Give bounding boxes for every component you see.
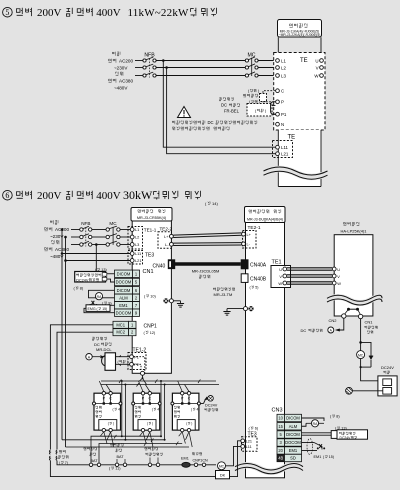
svg-text:L+: L+: [164, 234, 169, 239]
svg-text:L3: L3: [135, 242, 139, 247]
ground converter PE: [163, 298, 184, 307]
connector CN3: [272, 408, 283, 414]
wire CN1 thermal down: [360, 319, 362, 343]
svg-text:10): 10): [150, 294, 156, 298]
resistor regenerative option group 3: [171, 392, 201, 432]
terminal block TE control (L11 L21): [273, 135, 296, 158]
svg-text:DK: DK: [220, 474, 226, 478]
svg-text:EM1: EM1: [119, 303, 128, 308]
svg-text:ALM: ALM: [119, 295, 128, 300]
svg-text:): ): [113, 422, 114, 426]
node U output: [315, 58, 323, 63]
wire wavy break motor: [327, 295, 382, 305]
svg-text:U: U: [337, 267, 340, 272]
svg-text:30kW: 30kW: [123, 188, 153, 202]
terminal block TE2-1: [243, 225, 261, 248]
svg-text:BAT: BAT: [91, 459, 99, 463]
svg-text:CN1: CN1: [143, 269, 154, 275]
wire regen chain risers 2: [160, 380, 166, 440]
node bus drive unit BAT: [84, 447, 101, 466]
node motor U: [332, 267, 340, 272]
svg-text:10: 10: [278, 416, 283, 421]
wire V drive to motor: [287, 275, 332, 277]
wire bus L+ converter to drive: [173, 233, 241, 238]
wire tap to interface supply: [95, 243, 98, 271]
svg-text:EM1: EM1: [314, 455, 322, 459]
svg-text:): ): [191, 422, 192, 426]
svg-text:11): 11): [115, 467, 121, 471]
wire source stubs: [135, 61, 143, 76]
relay RA drive alarm: [302, 418, 325, 427]
svg-text:CN40B: CN40B: [250, 277, 267, 283]
svg-text:): ): [127, 360, 128, 364]
svg-text:CN3: CN3: [272, 408, 283, 414]
svg-text:P2: P2: [134, 363, 139, 367]
node P: [276, 100, 284, 105]
svg-text:DICOM: DICOM: [286, 432, 300, 437]
svg-text:L11: L11: [281, 145, 289, 150]
svg-text:L2: L2: [135, 235, 139, 240]
svg-text:CN1: CN1: [365, 320, 374, 325]
wire regen bus to DC24V arrow: [200, 396, 217, 412]
svg-text:TE: TE: [300, 58, 308, 64]
connector CN3 pin table: [277, 414, 302, 461]
svg-text:MR-J3-CR55K(4): MR-J3-CR55K(4): [137, 216, 167, 220]
svg-text:MC: MC: [247, 53, 255, 59]
svg-text:P: P: [281, 100, 284, 105]
node power-source-1 label: [108, 52, 133, 91]
node relay terminal block label MR-J3-TM: [213, 288, 235, 298]
node L2: [276, 65, 287, 70]
converter unit body: [132, 221, 171, 373]
svg-text:NFB: NFB: [81, 221, 90, 226]
note (14): [205, 201, 218, 206]
svg-text:15): 15): [102, 307, 107, 311]
node drive L21: [241, 439, 252, 444]
resistor regenerative option group 2: [132, 392, 162, 432]
wire P2 to bottom node dashed: [133, 357, 144, 374]
wire taps to converter L11 L21: [61, 228, 131, 260]
node L1: [276, 58, 287, 63]
wire bus to drive TE3: [226, 446, 241, 465]
note (10): [144, 294, 157, 298]
node conv L3: [130, 242, 139, 247]
svg-text:4): 4): [118, 408, 121, 412]
wire converter output feeder buses: [99, 375, 219, 391]
svg-text:5: 5: [5, 8, 9, 17]
transistor MC coil fan circuit: [357, 341, 371, 359]
diode flyback: [369, 352, 373, 368]
relay RA converter alarm: [89, 290, 115, 300]
svg-text:DICOM: DICOM: [117, 288, 131, 293]
svg-text:MR-J3CDL05M: MR-J3CDL05M: [192, 269, 220, 274]
svg-text:DC24V: DC24V: [76, 278, 89, 282]
svg-text:L21: L21: [246, 440, 252, 444]
svg-text:TE1-1: TE1-1: [144, 227, 157, 232]
svg-text:P1: P1: [134, 355, 139, 359]
svg-text:AC380: AC380: [119, 79, 133, 84]
svg-text:DC24V: DC24V: [340, 436, 352, 440]
svg-text:L11: L11: [135, 251, 141, 256]
inductor DC reactor MR-DCL: [92, 337, 129, 370]
svg-text:): ): [152, 422, 153, 426]
svg-text:L21: L21: [135, 258, 142, 263]
svg-text:15): 15): [329, 455, 334, 459]
node conv L21: [130, 258, 141, 263]
svg-text:TE: TE: [288, 135, 296, 141]
title section 5: [3, 7, 217, 19]
wire MC2 loop: [57, 332, 113, 449]
wire transformer outputs to bottom buses: [50, 441, 240, 477]
svg-text:~480V: ~480V: [114, 85, 128, 90]
svg-text:15: 15: [278, 424, 283, 429]
svg-text:RA: RA: [97, 295, 102, 299]
svg-text:EM1: EM1: [289, 448, 298, 453]
svg-text:~230V: ~230V: [114, 65, 128, 70]
wire wavy break drive bottom: [235, 463, 303, 473]
connector CN40B: [241, 274, 267, 290]
terminal block TE (main): [300, 58, 308, 64]
node drive L11: [241, 445, 252, 450]
note (13) drive: [335, 426, 348, 430]
svg-text:TE3: TE3: [145, 253, 154, 259]
svg-text:CN40: CN40: [153, 263, 166, 269]
note (11): [109, 466, 121, 470]
svg-text:~MR-J3-22KA(4)(-RJ006)(5): ~MR-J3-22KA(4)(-RJ006)(5): [279, 33, 321, 37]
note (8) section6: [74, 286, 84, 290]
svg-text:5): 5): [255, 286, 258, 290]
wire MC to servo amp L1 L2 L3: [258, 61, 275, 76]
servo amplifier body lower outline: [278, 130, 321, 187]
svg-text:SD: SD: [290, 456, 296, 461]
wire NFB to MC three phases: [156, 61, 245, 76]
breaker NFB (section 6): [80, 221, 92, 247]
svg-text:DOCOM: DOCOM: [285, 440, 301, 445]
svg-text:L11: L11: [246, 445, 252, 449]
wire fan circuit join: [360, 359, 378, 381]
svg-text:CNP1CN: CNP1CN: [193, 458, 208, 462]
svg-text:DC24V: DC24V: [381, 365, 394, 370]
svg-text:MR-J3-DU[]KA(4)/B(4): MR-J3-DU[]KA(4)/B(4): [247, 217, 283, 221]
node N: [276, 122, 285, 127]
wire regen bottom buses: [62, 432, 192, 463]
converter unit name box: [131, 208, 172, 222]
contactor coil MC bottom: [218, 462, 226, 470]
svg-text:N: N: [281, 122, 284, 127]
motor servo motor name: [340, 222, 367, 233]
svg-text:7): 7): [65, 461, 68, 465]
node converter bottom output: [141, 371, 145, 375]
svg-text:MC: MC: [358, 353, 364, 357]
terminal block TE1 drive: [271, 260, 291, 288]
warning note triangle: [172, 107, 257, 131]
wire MC1 loop: [50, 325, 113, 450]
svg-text:MC: MC: [219, 465, 225, 469]
svg-text:ALM: ALM: [289, 424, 298, 429]
svg-text:DC: DC: [208, 120, 214, 125]
svg-text:V: V: [337, 274, 340, 279]
svg-text:U: U: [279, 267, 282, 272]
terminal block TE1-2: [128, 348, 146, 370]
node motor W: [332, 281, 341, 286]
contactor MC (section 5): [245, 53, 258, 78]
svg-text:MC1: MC1: [116, 322, 125, 327]
connector motor CN1 thermal: [358, 314, 377, 333]
svg-text:L1: L1: [135, 227, 139, 232]
connector CN1 pin table: [115, 270, 140, 316]
wire bus L- converter to drive: [173, 243, 241, 246]
connector CNP1 MC outputs: [113, 321, 157, 335]
svg-text:4): 4): [157, 408, 160, 412]
node drive L+: [242, 232, 252, 237]
node motor V: [332, 274, 340, 279]
breaker NFB (section 5): [143, 53, 156, 78]
svg-text:V: V: [316, 65, 319, 70]
node bus servo motor thermal: [145, 447, 163, 466]
svg-text:200V: 200V: [37, 190, 62, 202]
svg-text:CN40A: CN40A: [250, 263, 267, 269]
svg-text:RA: RA: [313, 422, 318, 426]
svg-text:MR-DCL: MR-DCL: [96, 347, 112, 352]
wire regen chain risers 1: [121, 380, 127, 440]
svg-text:L2: L2: [281, 65, 286, 70]
svg-text:DICOM: DICOM: [286, 416, 300, 421]
node L21: [276, 152, 289, 157]
drive unit name box: [245, 207, 286, 223]
svg-text:4B: 4B: [278, 456, 283, 461]
note (9): [102, 301, 112, 305]
inductor DC reactor FR-BEL (note 2): [219, 97, 275, 116]
node power-source-2 label: [44, 220, 69, 259]
svg-text:DOCOM: DOCOM: [116, 310, 132, 315]
svg-text:4): 4): [197, 408, 200, 412]
wire interface supply to CN1: [107, 274, 115, 282]
drive unit body: [246, 223, 285, 478]
wire bus cable MR-J3CDL05M: [175, 264, 241, 278]
title section 6: [3, 188, 201, 202]
connector CN40 converter: [153, 260, 175, 270]
wire NFB to MC (section 6): [92, 230, 106, 245]
wire CN2 to encoder marker A: [301, 318, 344, 333]
node W output: [314, 73, 323, 78]
terminal block TE1-1: [128, 227, 157, 250]
node L11: [276, 145, 289, 150]
node C: [276, 89, 285, 94]
svg-text:CNP1: CNP1: [144, 324, 158, 330]
svg-text:20: 20: [278, 448, 283, 453]
connector motor CN2: [329, 314, 346, 323]
svg-text:W: W: [337, 281, 341, 286]
op-amp servo amplifier U1 name box (section 5): [278, 20, 322, 38]
node P1 reactor: [130, 355, 139, 360]
node conv L-: [165, 242, 173, 247]
encoder internal link: [345, 308, 361, 315]
svg-text:MC2: MC2: [116, 330, 125, 335]
wire name box to amp body: [278, 37, 321, 52]
wire W drive to motor: [287, 282, 332, 284]
svg-text:AC200: AC200: [119, 59, 133, 64]
node V output: [316, 65, 324, 70]
svg-text:400V: 400V: [96, 190, 121, 202]
svg-text:L1: L1: [281, 58, 286, 63]
note (8) drive: [330, 414, 340, 418]
svg-text:TE2-2: TE2-2: [160, 226, 173, 231]
svg-text:11kW~22kW: 11kW~22kW: [128, 7, 190, 19]
diode surge DK box: [216, 471, 230, 479]
svg-text:DC: DC: [221, 103, 227, 108]
inductor step-down transformer: [49, 450, 68, 465]
svg-text:HA-LP25K(4)1: HA-LP25K(4)1: [340, 228, 367, 233]
servo amplifier main dashed body: [274, 53, 325, 131]
battery DC24V supply box fan: [378, 365, 397, 396]
svg-text:EMG: EMG: [88, 307, 96, 311]
wire U drive to motor: [287, 268, 332, 270]
svg-text:400V: 400V: [96, 7, 121, 19]
svg-text:DICOM: DICOM: [117, 271, 131, 276]
svg-text:L21: L21: [281, 152, 289, 157]
node drive U: [279, 267, 287, 272]
svg-text:C: C: [281, 89, 284, 94]
contactor MC (section 6): [106, 221, 120, 246]
terminal block TE3 converter: [128, 251, 154, 265]
node P2 reactor: [130, 362, 139, 367]
wire control power taps to L11 L21: [162, 59, 276, 154]
node bus EM1: [181, 457, 190, 468]
svg-text:DC24V: DC24V: [205, 404, 218, 408]
node L3: [276, 73, 287, 78]
node conv L11: [130, 251, 141, 256]
node conv L2: [130, 235, 139, 240]
resistor regenerative option (note 3): [243, 89, 275, 104]
ground shielded marker fan: [346, 387, 383, 394]
node drive W: [278, 281, 286, 286]
svg-text:12): 12): [150, 331, 156, 335]
node conv L+: [164, 234, 173, 239]
node bus EMG CNP1: [192, 452, 208, 466]
svg-text:14): 14): [212, 201, 218, 206]
battery interface DC24V supply box: [75, 272, 107, 283]
svg-text:MR-J3-TM: MR-J3-TM: [214, 292, 233, 297]
node conv L1: [130, 227, 139, 232]
svg-text:MC: MC: [109, 221, 117, 226]
svg-text:FR-BEL: FR-BEL: [224, 108, 240, 113]
ground drive unit PE: [223, 306, 253, 315]
svg-text:TE1: TE1: [272, 260, 282, 266]
svg-text:6: 6: [5, 191, 9, 200]
switch EMG emergency stop drive: [302, 439, 335, 460]
svg-text:L3: L3: [281, 73, 286, 78]
svg-text:200V: 200V: [37, 7, 62, 19]
svg-text:EM1: EM1: [181, 457, 189, 461]
terminal block TE3 drive: [242, 426, 259, 451]
wire fan supply taps down: [61, 252, 67, 447]
wire source stubs 2: [71, 230, 80, 245]
note (13): [95, 268, 108, 272]
svg-text:DC: DC: [94, 342, 100, 347]
resistor regenerative option group 1: [93, 392, 123, 432]
motor servo motor body: [334, 235, 373, 316]
svg-text:CN2: CN2: [329, 318, 338, 323]
node drive V: [279, 274, 286, 279]
node bus converter unit BAT: [110, 443, 126, 466]
wire MC to converter L1 L2 L3: [120, 230, 130, 245]
battery interface DC24V supply drive: [302, 430, 368, 440]
node drive L-: [242, 242, 251, 247]
svg-text:DOCOM: DOCOM: [116, 280, 132, 285]
connector CN40A: [241, 260, 267, 269]
node A reactor marker: [86, 354, 105, 360]
svg-text:U: U: [315, 58, 318, 63]
svg-text:W: W: [278, 281, 282, 286]
switch EMG emergency stop (converter): [84, 301, 115, 313]
wire wavy break (section 5): [264, 167, 328, 179]
svg-text:DC: DC: [301, 328, 307, 333]
svg-text:BAT: BAT: [117, 455, 125, 459]
svg-text:NFB: NFB: [144, 53, 155, 59]
svg-text:P1: P1: [281, 112, 287, 117]
svg-text:L+: L+: [247, 232, 252, 237]
terminal block TE2-2: [158, 226, 172, 248]
node P1: [276, 112, 287, 117]
connector CN1 converter: [143, 269, 154, 275]
svg-text:V: V: [279, 274, 282, 279]
